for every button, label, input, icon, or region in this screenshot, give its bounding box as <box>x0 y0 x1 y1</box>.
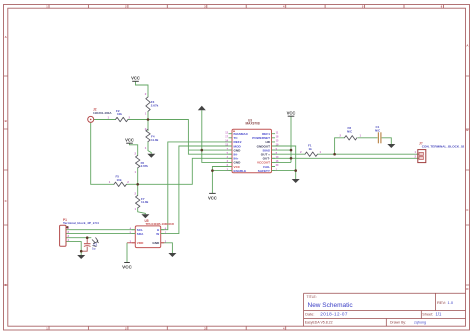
node A junction <box>147 118 150 121</box>
wire node A to resistor F4 top <box>147 120 149 131</box>
svg-text:1/1: 1/1 <box>436 312 442 317</box>
wire GND of U5 to ground <box>161 243 173 253</box>
svg-text:2.67k: 2.67k <box>141 164 149 168</box>
node E junction <box>80 250 83 253</box>
svg-text:N/C: N/C <box>375 129 381 133</box>
wire F7 bottom to ground <box>138 208 146 214</box>
up arrow net flag <box>198 106 206 110</box>
node C junction <box>333 153 336 156</box>
wire VDD of U5 left <box>127 242 135 244</box>
wire F6 bottom to node B <box>137 168 139 185</box>
svg-text:TPL0401B-10DCKR: TPL0401B-10DCKR <box>146 222 175 226</box>
svg-text:EasyEDA V5.8.22: EasyEDA V5.8.22 <box>305 320 333 324</box>
wire node B to IN+ of U3 <box>138 158 232 184</box>
svg-text:REV:: REV: <box>437 300 446 305</box>
svg-text:Terminal_block_4P_2.54: Terminal_block_4P_2.54 <box>63 221 99 225</box>
svg-text:CON_TERMINAL_BLOCK_02: CON_TERMINAL_BLOCK_02 <box>422 145 465 149</box>
IC U5 TPL0401B <box>130 219 175 247</box>
svg-text:11.8k: 11.8k <box>141 200 149 204</box>
wire C2 to ground <box>382 138 392 144</box>
wire P1 pin1 to SCL of U5 <box>66 229 135 231</box>
svg-text:VCC: VCC <box>287 111 296 116</box>
frame row ticks left <box>4 76 8 285</box>
title block frame <box>304 293 466 326</box>
svg-text:B: B <box>466 128 468 132</box>
svg-text:11K201-400A: 11K201-400A <box>93 111 112 115</box>
svg-text:11.8k: 11.8k <box>151 138 159 142</box>
VCC flag 3 <box>287 111 296 117</box>
wire C1 bottom to node E <box>81 247 87 251</box>
resistor F6 <box>135 151 149 174</box>
capacitor C1 polarized <box>84 238 99 251</box>
wire node C up to resistor F8 <box>335 138 345 154</box>
wire P1 pin2 to SDA of U5 <box>66 233 135 235</box>
capacitor C2 N/C <box>375 125 381 143</box>
wire C1 top stem <box>86 238 88 244</box>
svg-text:VCC: VCC <box>131 76 140 81</box>
resistor F5 <box>109 175 130 187</box>
wire node B to resistor F7 top <box>137 184 139 195</box>
wire REF2 of U3 to H of U5 <box>161 142 232 230</box>
U3 pin stubs right <box>272 134 276 171</box>
connector P1 terminal block 4 pin <box>60 218 99 246</box>
VCC flag 4 below U3 <box>208 193 217 200</box>
VCC flag 1 <box>131 76 140 82</box>
wire gnd arrow flag down to GND2 pin of U3 <box>202 110 232 162</box>
svg-text:SAFETY: SAFETY <box>258 169 271 173</box>
VCC flag 2 <box>125 138 134 144</box>
svg-text:W: W <box>156 232 159 236</box>
svg-text:Sheet:: Sheet: <box>422 313 433 317</box>
junction SAFETY row <box>294 169 297 172</box>
U5 pin numbers <box>130 227 167 243</box>
svg-text:Date:: Date: <box>305 313 314 317</box>
title block label TITLE: <box>305 295 454 325</box>
wire OUT- of U3 to connector J <box>272 157 421 159</box>
connector J? terminal block 2 pin <box>415 142 465 163</box>
wire VCC3 flag down BIAS/OUT- column <box>290 116 292 162</box>
connector J2 audio jack <box>88 108 113 123</box>
svg-text:VDD: VDD <box>137 241 144 245</box>
ground below GNDOUT/SAFETY <box>292 179 300 183</box>
wire P1 pin4 to ground <box>66 242 81 255</box>
wire node A to IN- of U3 <box>148 120 232 155</box>
U3 pin numbers <box>225 131 228 171</box>
svg-text:1k: 1k <box>309 147 313 151</box>
svg-text:10k: 10k <box>117 178 122 182</box>
svg-text:GND: GND <box>152 241 160 245</box>
wire F3 bottom to node A <box>147 96 149 120</box>
wire GND pin row of U3 <box>189 149 232 151</box>
wire P1 pin3 to node D <box>66 237 91 239</box>
node D junction <box>86 236 89 239</box>
svg-text:ENABLE: ENABLE <box>234 169 247 173</box>
wire GNDOUT of U3 to ground <box>272 146 296 179</box>
junction OUT- row <box>290 157 293 160</box>
ground below C2 <box>387 144 395 148</box>
svg-text:2018-12-07: 2018-12-07 <box>320 312 348 317</box>
resistor F3 <box>145 92 159 115</box>
ground below F7 <box>141 214 149 218</box>
U3 left pin names <box>234 132 249 173</box>
resistor F8 N/C <box>340 126 362 140</box>
svg-text:D: D <box>466 287 468 291</box>
wire J2 down to resistor F5 <box>91 123 114 185</box>
wire VDD to VCC4 flag <box>126 243 128 262</box>
wire F1 to connector J <box>318 153 421 155</box>
wire J2 to resistor F2 <box>94 119 116 121</box>
wire VCC2 to resistor F6 top <box>130 143 138 155</box>
svg-text:VCC: VCC <box>122 265 132 270</box>
frame column ticks top <box>49 5 444 9</box>
resistor F1 <box>300 144 322 157</box>
U3 right pin names <box>252 132 271 173</box>
wire VCC1 to resistor F3 top <box>136 81 149 95</box>
svg-text:1.0: 1.0 <box>448 300 454 305</box>
wire VCC pin of U3 down to VCC flag <box>212 167 232 194</box>
U5 pin stubs <box>132 230 164 234</box>
svg-text:N/C: N/C <box>347 130 353 134</box>
wire BIAS of U3 <box>272 149 292 151</box>
resistor F4 <box>145 127 159 150</box>
node B junction <box>136 183 139 186</box>
frame column ticks bottom <box>49 326 286 330</box>
wire VCCOUT of U3 <box>272 161 292 163</box>
frame row letters <box>5 35 470 291</box>
svg-text:New Schematic: New Schematic <box>308 302 354 309</box>
svg-text:zqhong: zqhong <box>414 320 426 324</box>
U3 pin stubs left <box>229 134 233 171</box>
svg-text:B: B <box>5 119 7 123</box>
wire F5 to node B <box>127 183 138 185</box>
ground below U5 GND <box>168 253 176 257</box>
wire ENABLE of U3 to junction <box>212 170 232 172</box>
junction BIAS row <box>290 149 293 152</box>
svg-text:Drawn By:: Drawn By: <box>390 320 406 324</box>
svg-text:D: D <box>5 283 7 287</box>
frame row ticks right <box>466 76 470 285</box>
svg-text:2.67k: 2.67k <box>151 103 159 107</box>
svg-text:10k: 10k <box>117 112 122 116</box>
VCC flag 5 below U5 VDD <box>122 263 132 270</box>
svg-text:TITLE:: TITLE: <box>307 295 317 299</box>
wire F8 to capacitor C2 <box>358 137 378 139</box>
wire OUT+ of U3 to resistor F1 <box>272 153 306 155</box>
svg-text:1u: 1u <box>92 247 96 251</box>
wire SAFETY of U3 to junction <box>272 170 296 172</box>
junction GND row <box>201 149 204 152</box>
ground below P1 pin4 <box>77 255 85 259</box>
svg-text:VCC: VCC <box>125 138 134 143</box>
wire F4 bottom to ground <box>148 141 151 153</box>
ground below F4 <box>147 154 155 158</box>
wire F2 to node A <box>128 119 148 121</box>
resistor F7 <box>135 191 149 211</box>
resistor F2 <box>108 109 131 122</box>
svg-text:VCC: VCC <box>208 195 217 200</box>
svg-text:MAX9708: MAX9708 <box>246 122 260 126</box>
U5 pin names <box>137 228 160 245</box>
svg-text:SDA: SDA <box>137 232 144 236</box>
junction ENABLE row <box>211 169 214 172</box>
wire MOD of U3 to W of U5 <box>161 146 232 234</box>
IC U3 MAX9708 <box>225 118 279 172</box>
